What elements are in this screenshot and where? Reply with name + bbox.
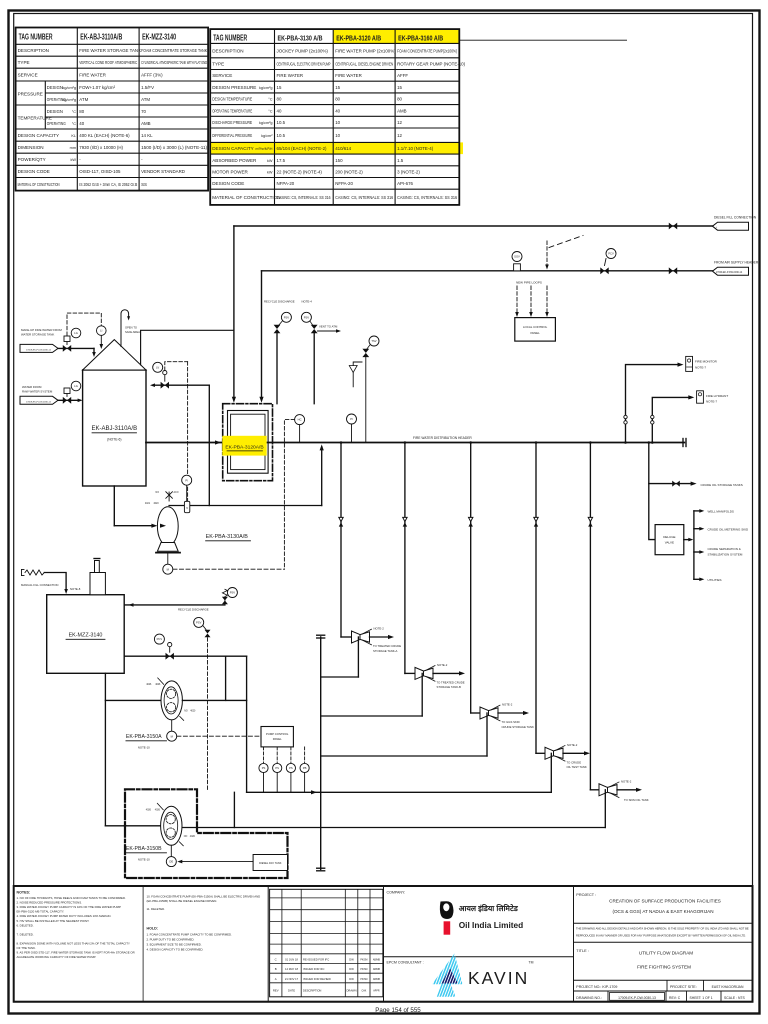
- svg-text:PS: PS: [262, 766, 266, 770]
- svg-text:CASING: CS, INTERNALS: SS 316: CASING: CS, INTERNALS: SS 316: [397, 195, 457, 200]
- epcm consultant label: [387, 961, 424, 965]
- wire tank bottom outlet: [114, 486, 157, 528]
- svg-text:7. DELETED.: 7. DELETED.: [17, 932, 34, 936]
- svg-text:12: 12: [397, 120, 402, 125]
- svg-text:14 MAY 18: 14 MAY 18: [285, 967, 299, 971]
- tank conical roof: [83, 340, 146, 370]
- svg-text:DIESEL FILL CONNECTION: DIESEL FILL CONNECTION: [714, 216, 757, 220]
- svg-text:4. DESIGN CAPACITY TO BE CONFI: 4. DESIGN CAPACITY TO BE CONFIRMED.: [147, 948, 204, 952]
- svg-text:APPR: APPR: [373, 989, 380, 992]
- svg-text:DESIGN TEMPERATURE: DESIGN TEMPERATURE: [212, 97, 252, 102]
- wire header drop 3: [469, 441, 472, 713]
- revision table grid: [270, 889, 383, 997]
- svg-text:CASING: CS, INTERNALS: SS 316: CASING: CS, INTERNALS: SS 316: [277, 195, 331, 200]
- svg-text:OIL TEST TANK: OIL TEST TANK: [567, 765, 587, 769]
- svg-text:REV: C: REV: C: [669, 996, 681, 1000]
- svg-text:200 (NOTE-2): 200 (NOTE-2): [335, 169, 363, 174]
- svg-text:°C: °C: [268, 98, 273, 102]
- svg-text:1500 (I/D) x 3000 (L) (NOTE-11: 1500 (I/D) x 3000 (L) (NOTE-11): [141, 145, 208, 150]
- svg-text:TSV: TSV: [371, 339, 376, 343]
- svg-text:22 (NOTE-2) (NOTE-4): 22 (NOTE-2) (NOTE-4): [277, 169, 323, 174]
- svg-text:EK-ABJ-3110A/B: EK-ABJ-3110A/B: [80, 33, 122, 42]
- svg-text:VENDOR STANDARD: VENDOR STANDARD: [141, 169, 185, 174]
- left table header row text: [19, 33, 177, 42]
- project cell: [574, 893, 753, 1002]
- svg-text:FIRE WATER: FIRE WATER: [277, 73, 304, 78]
- svg-text:AMB: AMB: [397, 108, 407, 113]
- svg-text:NFPA-20: NFPA-20: [335, 181, 353, 186]
- svg-text:PS: PS: [289, 766, 293, 770]
- svg-text:UTILITY FLOW DIAGRAM: UTILITY FLOW DIAGRAM: [639, 951, 693, 956]
- svg-text:NO: NO: [156, 492, 160, 494]
- svg-text:IS 2062 Gr.B + 3mm CA, IS 2062: IS 2062 Gr.B + 3mm CA, IS 2062 Gr.B: [79, 182, 137, 187]
- svg-text:EK-PBA-3150A: EK-PBA-3150A: [126, 734, 162, 740]
- svg-text:EAST KHAGORIJAN: EAST KHAGORIJAN: [712, 985, 744, 989]
- svg-text:B: B: [275, 967, 277, 971]
- svg-text:PK/SM: PK/SM: [360, 969, 367, 971]
- svg-text:01 JUN 18: 01 JUN 18: [285, 958, 298, 962]
- instrument SOV: [512, 252, 522, 271]
- svg-text:MOTOR POWER: MOTOR POWER: [212, 169, 248, 174]
- instrument PS: [259, 747, 268, 792]
- valve cascade 3 TO GGS SKID CRUDE STORAGE TANK: [471, 703, 534, 729]
- svg-text:8. EXPANSION DOME WITH VOLUME: 8. EXPANSION DOME WITH VOLUME NOT LESS T…: [17, 942, 131, 946]
- svg-text:LG: LG: [74, 384, 78, 388]
- svg-text:1.1/7.10 (NOTE-4): 1.1/7.10 (NOTE-4): [397, 146, 434, 151]
- svg-text:आयल इंडिया लिमिटेड: आयल इंडिया लिमिटेड: [459, 904, 519, 913]
- svg-text:PANEL: PANEL: [273, 737, 282, 741]
- svg-text:DESIGN CAPACITY: DESIGN CAPACITY: [18, 133, 60, 138]
- wire inlet 2: [58, 399, 83, 403]
- svg-text:TAG NUMBER: TAG NUMBER: [213, 34, 247, 43]
- svg-text:FIRE WATER STORAGE TANK: FIRE WATER STORAGE TANK: [79, 48, 141, 53]
- svg-text:KL: KL: [71, 134, 76, 138]
- svg-text:NOTE-8: NOTE-8: [70, 587, 81, 591]
- wire foam rung 4 / pump discharge line: [247, 753, 552, 794]
- svg-text:CENTRIFUGAL ELECTRIC DRIVEN PU: CENTRIFUGAL ELECTRIC DRIVEN PUMP: [277, 61, 331, 66]
- valve on hydrant branch: [651, 415, 654, 424]
- valve cascade 1 TO PIGGED CRUDE STORAGE TANK-A: [341, 627, 401, 653]
- svg-text:4026: 4026: [155, 809, 161, 811]
- svg-text:VERTICAL CONE ROOF ATMOSPHERIC: VERTICAL CONE ROOF ATMOSPHERIC: [79, 60, 137, 65]
- svg-text:DESIGN CODE: DESIGN CODE: [18, 169, 50, 174]
- svg-text:AB/MB: AB/MB: [373, 959, 381, 962]
- svg-text:kg/cm²: kg/cm²: [261, 134, 273, 138]
- svg-text:OISD-117, OISD-105: OISD-117, OISD-105: [79, 169, 121, 174]
- svg-text:▪: ▪: [716, 226, 717, 229]
- svg-text:DW: DW: [349, 958, 354, 962]
- svg-text:DIFFERENTIAL PRESSURE: DIFFERENTIAL PRESSURE: [212, 133, 252, 138]
- wire riser to package B: [259, 271, 263, 403]
- wire riser B to diesel pump line: [233, 792, 235, 827]
- wire air supply line: [262, 270, 713, 272]
- svg-text:FIRE FIGHTING SYSTEM: FIRE FIGHTING SYSTEM: [637, 965, 691, 970]
- svg-text:DW: DW: [349, 977, 354, 981]
- svg-text:ISSUED FOR IFC: ISSUED FOR IFC: [303, 967, 325, 971]
- svg-text:m³/hr/M³/H: m³/hr/M³/H: [256, 147, 273, 151]
- svg-text:°C: °C: [268, 109, 273, 113]
- svg-text:NO: NO: [184, 836, 188, 838]
- svg-text:TEMPERATURE: TEMPERATURE: [18, 116, 52, 121]
- wire 3150A discharge: [182, 699, 246, 701]
- wire foam rung 2: [321, 673, 423, 716]
- wire inlet 1: [58, 348, 96, 357]
- svg-text:CASING: CS, INTERNALS: SS 316: CASING: CS, INTERNALS: SS 316: [335, 195, 393, 200]
- KAVIN logo: [420, 950, 534, 1000]
- svg-text:REPRODUCED IN ANY MANNER OR US: REPRODUCED IN ANY MANNER OR USED FOR ANY…: [576, 934, 746, 938]
- branch well manifolds: [694, 509, 734, 514]
- svg-text:ISSUED FOR REVIEW: ISSUED FOR REVIEW: [303, 977, 331, 981]
- svg-text:4020: 4020: [190, 710, 196, 712]
- inlet label 2: [22, 385, 53, 394]
- diesel day tank box: [177, 855, 287, 871]
- local control panel box: [515, 318, 556, 342]
- svg-text:EK-PBA-3120 A/B TOTAL CAPACITY: EK-PBA-3120 A/B TOTAL CAPACITY.: [17, 910, 65, 914]
- svg-text:CRUDE STORAGE TANK: CRUDE STORAGE TANK: [502, 725, 534, 729]
- company cell label: [387, 891, 406, 895]
- svg-text:DE: DE: [169, 860, 173, 864]
- svg-text:PSV: PSV: [196, 621, 202, 625]
- svg-text:PANEL: PANEL: [530, 331, 540, 335]
- svg-text:AB/MB: AB/MB: [373, 978, 381, 981]
- svg-text:DISCHARGE PRESSURE: DISCHARGE PRESSURE: [212, 120, 252, 125]
- svg-text:NOTE-4: NOTE-4: [302, 300, 313, 304]
- svg-text:DRAWING NO.:: DRAWING NO.:: [576, 996, 602, 1000]
- svg-text:80: 80: [397, 97, 402, 102]
- svg-text:TAG NUMBER: TAG NUMBER: [19, 33, 53, 42]
- svg-text:PCV: PCV: [608, 252, 614, 256]
- wire fire water distribution header: [146, 439, 686, 447]
- svg-text:POWER/QTY: POWER/QTY: [18, 157, 46, 162]
- svg-text:TM: TM: [529, 961, 534, 965]
- motor M jockey: [163, 553, 173, 575]
- svg-text:EK-PBA-3120A/B: EK-PBA-3120A/B: [225, 444, 263, 450]
- svg-text:OPERATING: OPERATING: [47, 121, 66, 126]
- svg-text:3. FIRE WATER JOCKEY PUMP CAPA: 3. FIRE WATER JOCKEY PUMP CAPACITY IS 10…: [17, 905, 121, 909]
- svg-text:SHEET: 1 OF 1: SHEET: 1 OF 1: [690, 996, 713, 1000]
- fire monitor symbol: [686, 356, 718, 371]
- check valve on drop 5: [588, 517, 592, 526]
- svg-text:HC: HC: [298, 418, 302, 422]
- svg-text:FIRE WATER DISTRIBUTION HEADER: FIRE WATER DISTRIBUTION HEADER: [413, 436, 472, 440]
- svg-text:NO: NO: [184, 710, 188, 712]
- svg-text:PK/SM: PK/SM: [360, 979, 367, 981]
- wire foam suction manifold: [105, 673, 161, 827]
- pump base: [156, 543, 180, 553]
- svg-text:HOLD:: HOLD:: [147, 927, 158, 931]
- off-page connector inlet 2: [20, 396, 58, 404]
- check valve on drop 2: [403, 517, 407, 526]
- svg-text:LG: LG: [74, 331, 78, 335]
- svg-text:LI: LI: [100, 329, 102, 333]
- svg-text:NFPA-20: NFPA-20: [277, 181, 295, 186]
- svg-text:4021: 4021: [145, 503, 151, 505]
- svg-text:CYLINDRICAL ATMOSPHERIC TANK W: CYLINDRICAL ATMOSPHERIC TANK WITH FLAT E…: [141, 60, 207, 65]
- svg-text:TO TREATED CRUDE: TO TREATED CRUDE: [437, 681, 465, 685]
- svg-text:PSV: PSV: [304, 315, 310, 319]
- control valve PCV foam: [124, 634, 246, 660]
- valve on air supply line: [669, 267, 677, 274]
- svg-text:Page 154 of 555: Page 154 of 555: [375, 1007, 421, 1014]
- svg-text:1. FOAM CONCENTRATE PUMP CAPAC: 1. FOAM CONCENTRATE PUMP CAPACITY TO BE …: [147, 933, 233, 937]
- package inner box: [228, 411, 269, 474]
- pump EK-PBA-3130A/B casing: [157, 507, 178, 546]
- svg-text:PCV: PCV: [157, 637, 163, 641]
- wire foam rung 3: [321, 713, 487, 756]
- svg-text:4. FIRE WATER JOCKEY PUMP RATE: 4. FIRE WATER JOCKEY PUMP RATED DUTY INC…: [17, 914, 112, 918]
- svg-text:DIESEL DAY TANK: DIESEL DAY TANK: [259, 861, 282, 865]
- svg-text:ATM: ATM: [79, 97, 88, 102]
- svg-text:WATER STORAGE TANK: WATER STORAGE TANK: [21, 333, 54, 337]
- svg-text:MATERIAL OF CONSTRUCTION: MATERIAL OF CONSTRUCTION: [18, 182, 60, 187]
- svg-text:DATE: DATE: [288, 988, 295, 992]
- branch utilities: [694, 578, 722, 583]
- tank EK-MZZ-3140: [47, 595, 125, 674]
- off-page connector FROM AIR SUPPLY HEADER: [713, 261, 759, 276]
- svg-text:EK-PBA-3120 A/B: EK-PBA-3120 A/B: [336, 34, 381, 43]
- svg-text:6. DELETED.: 6. DELETED.: [17, 923, 34, 927]
- svg-text:SCALE : NTS: SCALE : NTS: [724, 996, 745, 1000]
- svg-text:DESIGN PRESSURE: DESIGN PRESSURE: [212, 85, 256, 90]
- deluge valve box: [655, 525, 684, 555]
- wire tank recycle return: [150, 383, 209, 505]
- wire fire hydrant branch: [651, 395, 694, 444]
- pump control panel: [261, 727, 293, 747]
- tank label: [92, 426, 138, 442]
- dashed signal from LV: [165, 362, 188, 502]
- svg-text:400 KL (EACH) (NOTE-6): 400 KL (EACH) (NOTE-6): [79, 133, 130, 138]
- svg-text:NOTE-2: NOTE-2: [502, 703, 513, 707]
- svg-text:14 KL: 14 KL: [141, 133, 153, 138]
- svg-text:SERVICE: SERVICE: [212, 73, 232, 78]
- wire foam branch B: [246, 656, 248, 792]
- engine DE 3150B: [166, 845, 176, 866]
- Oil India logo: [440, 901, 523, 935]
- svg-text:FROM AIR SUPPLY HEADER: FROM AIR SUPPLY HEADER: [714, 261, 759, 265]
- svg-text:STABILIZATION SYSTEM: STABILIZATION SYSTEM: [708, 552, 743, 556]
- instrument PCV with control valve: [600, 249, 616, 275]
- svg-text:°C: °C: [72, 122, 77, 126]
- svg-text:API-676: API-676: [397, 181, 413, 186]
- relief valve PSV a: [274, 312, 292, 403]
- wire tank roof to package riser: [141, 330, 234, 365]
- svg-text:VALVE: VALVE: [665, 540, 674, 544]
- instrument HC: [284, 415, 304, 570]
- svg-text:-: -: [79, 157, 81, 162]
- svg-text:150: 150: [335, 158, 343, 163]
- package EK-PBA-3150B boundary: [125, 789, 288, 878]
- svg-text:DESIGN: DESIGN: [47, 109, 63, 114]
- svg-text:STORAGE TANK-A: STORAGE TANK-A: [373, 649, 398, 653]
- svg-text:EK-PBA-3130 A/B: EK-PBA-3130 A/B: [278, 34, 323, 43]
- svg-text:OPERATING TEMPERATURE: OPERATING TEMPERATURE: [212, 108, 252, 113]
- revision rows text: [273, 958, 381, 993]
- off-page connector inlet 1: [20, 344, 58, 352]
- svg-text:10: 10: [335, 120, 340, 125]
- svg-text:80: 80: [335, 97, 340, 102]
- off-page connector DIESEL FILL CONNECTION: [713, 216, 757, 231]
- svg-text:40: 40: [79, 121, 84, 126]
- text new pipe loops: [516, 281, 542, 285]
- svg-text:PSV: PSV: [230, 591, 236, 595]
- svg-text:NOTE-10: NOTE-10: [138, 858, 150, 862]
- svg-text:kW: kW: [267, 159, 273, 163]
- svg-text:NOTE-2: NOTE-2: [374, 627, 385, 631]
- header label: [413, 436, 472, 440]
- svg-text:DESIGN CODE: DESIGN CODE: [212, 181, 244, 186]
- fire hydrant symbol: [697, 391, 729, 404]
- wire riser to package A: [232, 226, 236, 403]
- valve inlet 2: [63, 388, 71, 404]
- svg-text:65/104 (EACH) (NOTE-2): 65/104 (EACH) (NOTE-2): [277, 146, 328, 151]
- svg-text:70: 70: [141, 109, 146, 114]
- svg-text:3 (NOTE-2): 3 (NOTE-2): [397, 169, 420, 174]
- svg-text:kg/cm²g: kg/cm²g: [62, 86, 76, 90]
- svg-text:EPCM CONSULTANT :: EPCM CONSULTANT :: [387, 961, 424, 965]
- svg-text:DESCRIPTION: DESCRIPTION: [303, 988, 321, 992]
- svg-text:SS: SS: [141, 182, 147, 187]
- svg-text:LV: LV: [156, 365, 159, 369]
- vent cross on discharge: [145, 491, 179, 505]
- check valve on drop 1: [339, 517, 343, 526]
- label EK-PBA-3150A: [126, 734, 167, 750]
- svg-text:DW: DW: [349, 967, 354, 971]
- signal hash dashes: [549, 236, 583, 248]
- svg-text:THE DRAWING AND ALL DESIGN DET: THE DRAWING AND ALL DESIGN DETAILS AND D…: [576, 927, 749, 931]
- valve inlet 1: [63, 336, 71, 352]
- svg-text:4026: 4026: [155, 684, 161, 686]
- svg-text:NOTE-7: NOTE-7: [695, 365, 706, 369]
- instrument PI on header: [347, 414, 357, 443]
- valve cascade 4 TO CRUDE OIL TEST TANK: [536, 743, 590, 769]
- svg-text:Oil India Limited: Oil India Limited: [459, 920, 524, 930]
- svg-text:COMPANY:: COMPANY:: [387, 891, 406, 895]
- manual fill connection: [21, 570, 68, 595]
- svg-text:kg/cm²g: kg/cm²g: [62, 98, 76, 102]
- svg-text:RECYCLE DISCHARGE: RECYCLE DISCHARGE: [178, 608, 209, 612]
- branch crude separation: [694, 547, 743, 556]
- svg-text:TO GGS SKID: TO GGS SKID: [502, 720, 520, 724]
- title block outline: [14, 886, 753, 1002]
- svg-text:A: A: [275, 977, 277, 981]
- svg-text:RE-ISSUED FOR IFC: RE-ISSUED FOR IFC: [303, 958, 329, 962]
- svg-text:RECYCLE DISCHARGE: RECYCLE DISCHARGE: [264, 300, 295, 304]
- label EK-PBA-3150B: [126, 846, 167, 862]
- svg-text:NOTE-2: NOTE-2: [621, 779, 632, 783]
- svg-text:AMB: AMB: [141, 121, 151, 126]
- svg-text:FIRE MONITOR: FIRE MONITOR: [695, 360, 718, 364]
- check valve on drop 4: [534, 517, 538, 526]
- svg-text:-: -: [141, 157, 143, 162]
- dashed level loop: [67, 313, 101, 335]
- svg-text:4020: 4020: [154, 503, 160, 505]
- svg-text:MATERIAL OF CONSTRUCTION: MATERIAL OF CONSTRUCTION: [212, 195, 280, 200]
- svg-text:10: 10: [335, 133, 340, 138]
- package EK-PBA-3120A/B boundary: [223, 404, 273, 481]
- svg-text:AGGREGATE WORKING CAPACITY OF: AGGREGATE WORKING CAPACITY OF FIRE WATER…: [17, 955, 97, 959]
- motor M 3150A: [167, 720, 177, 741]
- svg-text:FIRE HYDRANT: FIRE HYDRANT: [706, 394, 728, 398]
- svg-text:7930 (I/D) x 10000 (H): 7930 (I/D) x 10000 (H): [79, 145, 123, 150]
- svg-text:PSV: PSV: [284, 315, 290, 319]
- instrument PS: [286, 747, 295, 792]
- svg-text:(EK-PBA-3150B) SHALL BE DIESEL: (EK-PBA-3150B) SHALL BE DIESEL ENGINE DR…: [147, 899, 218, 903]
- svg-text:FIRE WATER PUMP (2x100%): FIRE WATER PUMP (2x100%): [335, 48, 396, 53]
- svg-text:(NOTE-6): (NOTE-6): [107, 438, 121, 442]
- wire header drop 4: [535, 441, 538, 753]
- svg-text:EK-MZZ-3140: EK-MZZ-3140: [69, 633, 103, 639]
- svg-text:ABSORBED POWER: ABSORBED POWER: [212, 158, 257, 163]
- branch crude oil metering skid: [694, 527, 749, 532]
- svg-text:15: 15: [397, 85, 402, 90]
- svg-text:80: 80: [277, 97, 282, 102]
- wire header drop 2: [404, 441, 407, 673]
- svg-text:FOAM CONCENTRATE PUMP(2x100%): FOAM CONCENTRATE PUMP(2x100%): [397, 48, 457, 53]
- left table body text: [18, 48, 208, 187]
- svg-text:LOCAL CONTROL: LOCAL CONTROL: [523, 325, 548, 329]
- svg-text:1.5/FV: 1.5/FV: [141, 85, 154, 90]
- tank nozzle: [70, 559, 105, 595]
- svg-text:AB/MB: AB/MB: [373, 968, 381, 971]
- svg-text:10.5: 10.5: [277, 133, 286, 138]
- svg-text:10. FOAM CONCENTRATE PUMP (EK-: 10. FOAM CONCENTRATE PUMP (EK-PBA-3150A)…: [147, 895, 261, 899]
- svg-text:4026: 4026: [146, 809, 152, 811]
- svg-text:FOW+1.07 kg/cm²: FOW+1.07 kg/cm²: [79, 85, 115, 90]
- wire jockey discharge: [169, 444, 324, 505]
- svg-text:FIRE WATER: FIRE WATER: [79, 72, 106, 77]
- svg-text:PROJECT NO.: KIP-1709: PROJECT NO.: KIP-1709: [576, 985, 617, 989]
- svg-text:NOTE-7: NOTE-7: [706, 400, 717, 404]
- svg-text:OPEN TO: OPEN TO: [125, 326, 137, 330]
- svg-text:DELUGE: DELUGE: [663, 535, 675, 539]
- svg-text:15: 15: [277, 85, 282, 90]
- dashed link motor to panel: [177, 735, 261, 737]
- svg-text:NOTES:: NOTES:: [17, 891, 31, 895]
- svg-text:EK-PBA-3130A/B: EK-PBA-3130A/B: [206, 534, 249, 540]
- svg-text:MAKE-UP FIRE WATER FROM: MAKE-UP FIRE WATER FROM: [21, 328, 62, 332]
- instrument LI: [97, 326, 107, 349]
- svg-text:PROJECT :: PROJECT :: [576, 893, 596, 897]
- svg-text:NEW PIPE LOOPS: NEW PIPE LOOPS: [516, 281, 542, 285]
- svg-text:11. DELETED.: 11. DELETED.: [147, 907, 166, 911]
- svg-text:TO CRUDE: TO CRUDE: [567, 761, 582, 765]
- svg-text:40: 40: [335, 108, 340, 113]
- inlet label 1: [21, 328, 62, 337]
- instrument LG inlet 1: [71, 328, 81, 338]
- svg-text:4020: 4020: [190, 836, 196, 838]
- svg-text:PROJECT SITE:: PROJECT SITE:: [670, 985, 697, 989]
- wire foam branch A: [225, 656, 227, 700]
- wire deluge feed: [648, 441, 656, 539]
- svg-text:PI: PI: [185, 478, 188, 482]
- svg-text:FIRE WATER: FIRE WATER: [335, 73, 362, 78]
- wire crude oil storage tanks branch: [649, 481, 743, 487]
- svg-text:°C: °C: [72, 110, 77, 114]
- svg-text:PRESSURE: PRESSURE: [18, 92, 43, 97]
- svg-text:12: 12: [397, 133, 402, 138]
- svg-text:SOV: SOV: [514, 255, 520, 259]
- svg-text:17009-EK-P-DW-0030-12: 17009-EK-P-DW-0030-12: [26, 350, 52, 352]
- svg-text:PUMP CONTROL: PUMP CONTROL: [266, 732, 289, 736]
- dashed signal leads to control panel: [515, 286, 549, 317]
- svg-text:(OCS & GGS) AT NADUA & EAST KH: (OCS & GGS) AT NADUA & EAST KHAGORIJAN: [612, 909, 713, 914]
- svg-text:UTILITIES: UTILITIES: [708, 578, 722, 582]
- notes text left column: [17, 891, 135, 960]
- pump label EK-PBA-3130A/B: [206, 534, 251, 541]
- svg-text:TITLE :: TITLE :: [576, 949, 588, 953]
- svg-text:JOCKEY PUMP (2x100%): JOCKEY PUMP (2x100%): [277, 48, 329, 53]
- svg-text:mm: mm: [70, 146, 76, 150]
